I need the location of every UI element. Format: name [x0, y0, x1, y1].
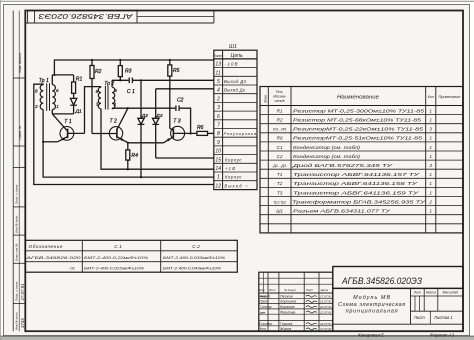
svg-text:С1: С1	[277, 145, 283, 150]
svg-text:РезисторМТ-0,25-51кОм±10% ТУ11: РезисторМТ-0,25-51кОм±10% ТУ11-85	[293, 136, 423, 141]
svg-text:1: 1	[429, 190, 432, 195]
svg-text:3735: 3735	[20, 318, 25, 328]
svg-text:БМТ-2-400-0,043мкФ±10%: БМТ-2-400-0,043мкФ±10%	[163, 267, 221, 271]
svg-text:БМТ-2-400-0,22мкФ±10%: БМТ-2-400-0,22мкФ±10%	[84, 256, 148, 260]
diode D3	[152, 89, 159, 158]
svg-text:Горина: Горина	[280, 322, 292, 326]
resistor R2	[90, 60, 94, 134]
svg-text:Тр1;Тр2: Тр1;Тр2	[273, 200, 286, 204]
svg-text:1: 1	[217, 175, 220, 181]
svg-text:С2: С2	[177, 98, 184, 104]
svg-text:21.07.81: 21.07.81	[319, 300, 332, 304]
svg-text:Справ. №: Справ. №	[18, 125, 22, 140]
svg-text:1: 1	[56, 104, 59, 109]
node R3 top rail	[119, 59, 121, 61]
node D2 to rail contact 1	[140, 176, 142, 178]
svg-text:1: 1	[429, 181, 432, 186]
node C2 collector junction	[190, 132, 192, 134]
svg-text:Резистор МТ-0,25-300Ом±10% ТУ1: Резистор МТ-0,25-300Ом±10% ТУ11-85	[293, 108, 425, 113]
svg-text:АГБВ.345826.020ЭЗ: АГБВ.345826.020ЭЗ	[38, 12, 134, 21]
svg-text:Конденсатор (см. табл): Конденсатор (см. табл)	[293, 145, 361, 150]
wire D3 to contact 15 rail	[156, 157, 214, 159]
svg-text:-10В: -10В	[225, 62, 238, 67]
svg-text:Куранов: Куранов	[280, 305, 295, 309]
svg-text:R1: R1	[76, 77, 83, 83]
wire Tp2 pin6 lead up	[111, 80, 113, 87]
svg-text:24.07.81: 24.07.81	[319, 322, 332, 326]
svg-text:Инв.№ дубл.: Инв.№ дубл.	[15, 215, 19, 233]
svg-text:№ докум.: № докум.	[284, 288, 297, 292]
svg-text:1: 1	[429, 145, 432, 150]
wire top rail (-10V to contact 13)	[54, 60, 213, 75]
svg-text:Дата: Дата	[320, 288, 329, 292]
svg-text:8: 8	[217, 131, 220, 137]
svg-text:Н.контр.: Н.контр.	[259, 322, 273, 326]
svg-text:Д2: Д2	[141, 113, 148, 119]
svg-text:Масса: Масса	[426, 291, 436, 295]
wire emitters T2-T3	[128, 142, 164, 144]
svg-text:Поз,: Поз,	[276, 90, 284, 94]
resistor R5	[168, 60, 172, 128]
svg-text:22.07.81: 22.07.81	[319, 310, 332, 314]
svg-text:Тр 1: Тр 1	[39, 78, 49, 84]
transformer Tp1	[40, 83, 55, 111]
svg-text:Т 2: Т 2	[110, 119, 118, 125]
transistor T3	[164, 126, 197, 143]
svg-text:Транзистор АБВГ.641136.157 ТУ: Транзистор АБВГ.641136.157 ТУ	[293, 172, 421, 177]
svg-text:Корпус: Корпус	[225, 175, 242, 180]
wire Tp2 pin1 to C2	[112, 107, 175, 109]
svg-text:3: 3	[96, 101, 99, 106]
svg-text:2: 2	[216, 96, 220, 102]
wire T1 collector up to Tp2 pin8	[85, 87, 102, 134]
svg-text:Изм: Изм	[259, 288, 264, 292]
signature squiggles	[260, 295, 317, 330]
svg-text:10: 10	[215, 149, 221, 155]
svg-text:Корпус: Корпус	[225, 157, 242, 162]
svg-text:Регулировка: Регулировка	[224, 131, 257, 136]
svg-text:Разъем АБГВ.634311.077 ТУ: Разъем АБГВ.634311.077 ТУ	[293, 209, 392, 214]
diode D1	[70, 98, 77, 114]
svg-text:БМТ-2-400-0,022мкФ±10%: БМТ-2-400-0,022мкФ±10%	[84, 267, 144, 271]
svg-text:2: 2	[428, 199, 432, 204]
svg-text:С 1: С 1	[114, 244, 122, 250]
top strip boxes (rotated designation)	[27, 11, 29, 24]
svg-text:1: 1	[429, 108, 432, 113]
svg-text:Листов 1: Листов 1	[433, 315, 453, 320]
svg-text:Лист: Лист	[413, 315, 425, 320]
svg-text:принципиальная: принципиальная	[346, 309, 398, 315]
svg-text:R6: R6	[277, 136, 283, 141]
svg-text:Т 3: Т 3	[173, 118, 181, 124]
node Tp2 pin1 / T2 collector	[127, 107, 129, 109]
svg-text:R3...R5: R3...R5	[273, 127, 287, 132]
wire winding1 to D1 bottom	[52, 113, 73, 115]
node D2 top junction	[140, 79, 142, 81]
svg-text:3: 3	[429, 127, 432, 132]
designation box	[333, 267, 463, 289]
resistor R1	[72, 75, 76, 99]
diode D2	[138, 80, 145, 177]
svg-text:Инв.№ подл.: Инв.№ подл.	[15, 312, 19, 330]
svg-text:1: 1	[114, 102, 117, 107]
svg-text:АГБВ.345826.020ЭЗ: АГБВ.345826.020ЭЗ	[341, 276, 422, 286]
wire contact 4 output	[156, 88, 214, 90]
svg-text:Тр 2: Тр 2	[104, 81, 114, 87]
scan edge artifacts	[0, 337, 474, 340]
svg-text:Подп. и дата: Подп. и дата	[15, 281, 19, 301]
svg-text:R2: R2	[95, 69, 102, 75]
svg-text:R5: R5	[173, 68, 180, 74]
svg-text:6: 6	[114, 88, 117, 93]
svg-text:АГБВ.345826.020: АГБВ.345826.020	[25, 255, 82, 260]
node emitter rail junction	[42, 141, 44, 143]
svg-text:Пров.: Пров.	[259, 300, 268, 304]
svg-text:3: 3	[35, 104, 38, 109]
svg-text:1: 1	[429, 154, 432, 159]
svg-text:27.07.81: 27.07.81	[20, 283, 25, 302]
svg-text:РезисторМТ-0,25-22кОм±10% ТУ11: РезисторМТ-0,25-22кОм±10% ТУ11-85	[293, 127, 424, 132]
node R5 top rail	[169, 59, 171, 61]
svg-text:8: 8	[96, 89, 99, 94]
svg-text:11: 11	[215, 70, 220, 76]
svg-text:27.07.81: 27.07.81	[319, 327, 332, 331]
capacitor selection table	[25, 240, 237, 272]
wire Tp1 pin3 down to emitter rail and contact 1	[43, 110, 214, 178]
svg-text:обозна-: обозна-	[273, 95, 287, 99]
svg-text:- 01: - 01	[68, 266, 75, 271]
svg-text:R4: R4	[131, 153, 138, 159]
svg-text:4: 4	[217, 88, 220, 94]
capacitor C2	[176, 105, 179, 111]
svg-text:7: 7	[217, 123, 220, 129]
svg-text:Подп. и дата: Подп. и дата	[15, 184, 19, 204]
svg-text:БМТ-2-400-0,033мкФ±10%: БМТ-2-400-0,033мкФ±10%	[163, 256, 225, 260]
wire Tp1 pin8 to output rail (contact 12)	[34, 84, 214, 184]
svg-text:15: 15	[215, 157, 221, 163]
svg-text:20.07.81: 20.07.81	[319, 305, 332, 309]
svg-text:Ш1: Ш1	[276, 209, 283, 214]
resistor R3	[118, 60, 122, 80]
svg-text:5: 5	[217, 79, 220, 85]
svg-text:Жуков: Жуков	[279, 327, 291, 331]
left section tiny texts and signatures	[259, 288, 332, 331]
svg-text:Конденсатор (см. табл): Конденсатор (см. табл)	[293, 154, 361, 159]
svg-text:17.07.81: 17.07.81	[320, 294, 332, 298]
svg-text:Выход Дп: Выход Дп	[224, 79, 247, 84]
svg-text:Т1: Т1	[277, 172, 283, 177]
svg-text:Песков: Песков	[280, 294, 293, 298]
svg-text:Модуль МВ: Модуль МВ	[353, 295, 390, 301]
svg-text:Перв. примен.: Перв. примен.	[18, 52, 22, 73]
svg-text:Ш1: Ш1	[229, 44, 237, 50]
svg-text:Обозначение: Обозначение	[29, 244, 63, 250]
svg-text:Хорошев: Хорошев	[279, 300, 296, 304]
svg-text:С2: С2	[277, 154, 283, 159]
svg-text:1: 1	[429, 136, 432, 141]
svg-text:Д1...Д3: Д1...Д3	[272, 163, 287, 168]
svg-text:1: 1	[429, 209, 432, 214]
svg-text:Т 1: Т 1	[64, 119, 72, 125]
svg-text:Взам.инв.№: Взам.инв.№	[15, 243, 19, 261]
node junction top rail / Tp1	[53, 74, 55, 76]
svg-text:Схема электрическая: Схема электрическая	[338, 302, 405, 308]
svg-text:3: 3	[429, 163, 432, 168]
parts list table	[260, 87, 463, 233]
svg-text:Транзистор АБВГ.641136.159 ТУ: Транзистор АБВГ.641136.159 ТУ	[293, 190, 420, 195]
svg-text:Конт: Конт	[214, 54, 223, 58]
svg-text:1: 1	[429, 118, 432, 123]
svg-text:чение: чение	[274, 99, 284, 103]
svg-text:Лист: Лист	[268, 288, 277, 292]
node R4 bottom rail	[127, 168, 129, 170]
wire C2 down to collector net	[180, 108, 191, 133]
wire C1 to contact 5	[133, 79, 214, 81]
svg-text:R2: R2	[277, 118, 283, 123]
svg-text:Т2: Т2	[277, 181, 283, 186]
resistor R6	[197, 131, 214, 135]
right section	[333, 288, 463, 331]
svg-text:R1: R1	[277, 108, 283, 113]
capacitor C1	[129, 78, 132, 84]
wire Tp1 pin1 lead down	[51, 110, 53, 114]
svg-text:Т.контр.: Т.контр.	[259, 305, 272, 309]
svg-text:R3: R3	[125, 68, 132, 74]
svg-text:8: 8	[35, 88, 38, 93]
node T2 emitter junction	[127, 142, 129, 144]
svg-text:12: 12	[215, 183, 221, 189]
transformer Tp2	[98, 86, 114, 110]
svg-text:Копировал Е: Копировал Е	[358, 333, 384, 338]
svg-text:+1В: +1В	[225, 166, 235, 171]
wire Tp1 winding 6 to R1 top	[52, 74, 73, 76]
left margin columns	[12, 11, 14, 332]
svg-text:Зона: Зона	[263, 95, 267, 103]
svg-text:Лит: Лит	[413, 291, 421, 295]
svg-text:Кол: Кол	[428, 95, 434, 99]
svg-text:Формат А3: Формат А3	[430, 333, 455, 338]
svg-text:3: 3	[217, 105, 220, 111]
svg-text:6: 6	[217, 114, 220, 120]
svg-text:Масштаб: Масштаб	[442, 291, 458, 295]
svg-text:С 2: С 2	[192, 244, 200, 250]
svg-text:Примечание: Примечание	[438, 95, 460, 99]
svg-text:6: 6	[56, 88, 59, 93]
wire Tp1 pin6 lead up	[51, 75, 53, 85]
svg-text:Д1: Д1	[75, 109, 82, 115]
node R2 top rail	[91, 59, 93, 61]
wire Tp2 pin6 to C1	[112, 79, 129, 81]
svg-text:Трансформатор БГАВ.345256.935: Трансформатор БГАВ.345256.935 ТУ	[292, 199, 427, 204]
svg-text:R6: R6	[197, 125, 204, 131]
svg-text:Утв.: Утв.	[259, 327, 266, 331]
wire Tp2 pin8 lead	[100, 86, 102, 89]
svg-text:9: 9	[217, 140, 220, 146]
resistor R4	[126, 143, 130, 169]
svg-text:Резистор МТ-0,25-68кОм±10% ТУ: Резистор МТ-0,25-68кОм±10% ТУ11-85	[293, 118, 422, 123]
svg-text:14: 14	[215, 166, 221, 172]
transistor T2	[109, 109, 128, 143]
svg-text:Выход ~: Выход ~	[224, 183, 248, 188]
svg-text:Д3: Д3	[155, 113, 162, 119]
wire Tp2 pin1 lead down	[111, 107, 113, 110]
connector table Sh1	[214, 50, 257, 189]
svg-text:Подп.: Подп.	[306, 288, 314, 292]
svg-text:С 1: С 1	[127, 89, 135, 95]
svg-text:Наименование: Наименование	[337, 95, 379, 101]
svg-text:Цепь: Цепь	[231, 53, 243, 59]
transistor T1	[52, 114, 84, 142]
wire Tp2 pin3 to rail contact 14	[101, 109, 214, 169]
wire T1 emitter to left rail	[43, 141, 58, 143]
left section outline	[259, 272, 333, 331]
node R5 contact4 junction	[169, 88, 171, 90]
svg-text:Т3: Т3	[277, 190, 283, 195]
svg-text:Выход Дг: Выход Дг	[224, 88, 245, 93]
svg-text:Фролова: Фролова	[280, 310, 295, 314]
svg-text:13: 13	[215, 62, 221, 68]
wire R2 to T2 base	[92, 133, 117, 135]
svg-text:Диод БАГВ.576275.349 ТУ: Диод БАГВ.576275.349 ТУ	[291, 163, 394, 168]
svg-text:Транзистор АБВГ.641136.158 ТУ: Транзистор АБВГ.641136.158 ТУ	[293, 181, 419, 186]
svg-text:1: 1	[429, 172, 432, 177]
margin vertical labels	[15, 52, 22, 330]
node R3 bottom	[119, 79, 121, 81]
